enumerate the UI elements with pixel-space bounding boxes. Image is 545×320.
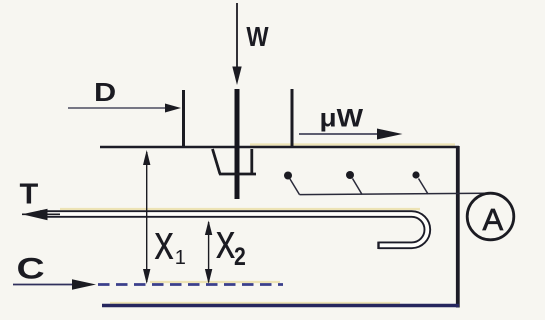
svg-text:D: D bbox=[94, 78, 116, 107]
svg-text:W: W bbox=[246, 22, 269, 52]
svg-text:T: T bbox=[20, 178, 39, 210]
svg-text:1: 1 bbox=[175, 247, 186, 269]
svg-text:A: A bbox=[483, 202, 504, 237]
svg-text:x: x bbox=[216, 215, 236, 269]
svg-text:C: C bbox=[17, 253, 45, 286]
svg-text:x: x bbox=[154, 216, 174, 270]
svg-text:2: 2 bbox=[234, 242, 246, 270]
svg-text:μW: μW bbox=[320, 104, 365, 132]
